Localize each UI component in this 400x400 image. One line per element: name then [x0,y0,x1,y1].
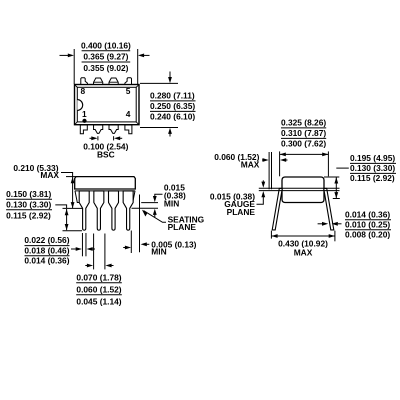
pin 1 index dot [82,119,86,123]
pin 8 tab (top) [81,78,88,85]
svg-text:MAX: MAX [294,248,313,258]
underline [350,162,396,164]
dim 0.195 leader [336,167,349,169]
seating plane label leader arrow [142,210,166,223]
top view body inner rectangle [77,87,136,122]
dim 0.070 left arrow [85,264,93,268]
underline [25,255,70,257]
dim 0.070 right arrow [105,264,113,268]
side view body [75,177,136,189]
svg-text:0.280 (7.11): 0.280 (7.11) [150,91,195,101]
svg-text:8: 8 [81,86,86,96]
underline [281,127,326,129]
dim 0.005 arrow [141,242,150,246]
svg-text:MAX: MAX [40,170,59,180]
dim 0.010 right arrow [332,222,342,226]
underline [345,229,391,231]
underline [150,100,196,102]
dim 0.022 left arrow [71,247,82,251]
gauge plane line lower [259,190,340,192]
side view pin 3 [109,191,119,230]
dim 0.100 right tick [113,136,115,140]
dim 0.100 left tick [97,136,99,140]
dim 0.010 left arrow [318,222,329,226]
seating plane right reference line upper [141,202,158,204]
dim 0.060 left-pointing arrow [280,158,288,162]
svg-text:0.195 (4.95): 0.195 (4.95) [350,153,395,163]
dim 0.430 right extension line [334,231,336,242]
underline [150,110,196,112]
svg-text:0.115 (2.92): 0.115 (2.92) [6,211,51,221]
svg-text:5: 5 [126,86,131,96]
svg-text:0.355 (9.02): 0.355 (9.02) [83,63,128,73]
dim 0.005 inner arrow [123,246,131,250]
underline [350,172,396,174]
top view body outer rectangle [75,85,140,125]
underline [76,294,122,296]
svg-text:0.150 (3.81): 0.150 (3.81) [6,189,51,199]
dim 0.280 upper arrow (down) [168,72,172,84]
dim 0.060 extension line b [271,152,273,189]
dim 0.070 left extension line [93,234,95,270]
seating plane right segment [132,207,159,209]
dim 0.280 lower extension line [140,127,178,129]
svg-text:4: 4 [126,109,131,119]
svg-text:BSC: BSC [97,149,115,159]
end view left lead [272,188,282,230]
svg-text:0.018 (0.46): 0.018 (0.46) [24,245,69,255]
dim 0.195 bottom tick [333,198,340,200]
svg-text:0.070 (1.78): 0.070 (1.78) [76,272,121,282]
side view pin 1 [79,191,89,230]
end view right lead [324,188,334,230]
svg-text:0.022 (0.56): 0.022 (0.56) [24,235,69,245]
pin 7 tab (top) [94,78,103,84]
pin 5 tab (top) [125,78,132,85]
dim 0.400 right extension line [137,49,139,84]
dim 0.100 left arrow [90,136,98,140]
svg-text:MIN: MIN [164,198,179,208]
pin 4 tab (bottom) [125,125,132,134]
underline [25,245,70,247]
svg-text:0.365 (9.27): 0.365 (9.27) [83,52,128,62]
svg-text:0.240 (6.10): 0.240 (6.10) [150,112,195,122]
dim 0.015 up arrow [153,209,157,218]
svg-text:0.010 (0.25): 0.010 (0.25) [345,219,390,229]
body frame corner bevels [75,85,139,125]
gauge plane line upper [259,187,340,189]
underline [82,61,131,63]
side view body lower edge line [75,190,135,192]
dim 0.150 vertical dimension line with arrows [65,209,69,230]
dim 0.280 lower arrow (up) [168,128,172,137]
side view body lower-right end slant [131,191,135,203]
dim 0.210 top tick [66,176,78,178]
svg-text:0.014 (0.36): 0.014 (0.36) [24,256,69,266]
underline [76,282,122,284]
svg-text:MIN: MIN [151,247,166,257]
dim 0.430 dimension line with arrows [271,234,335,238]
dim 0.070 right extension line [104,234,106,270]
dim 0.100 right arrow [114,136,122,140]
svg-text:PLANE: PLANE [227,207,256,217]
underline [6,209,52,211]
underline [6,198,52,200]
svg-text:0.130 (3.30): 0.130 (3.30) [350,163,395,173]
svg-text:0.310 (7.87): 0.310 (7.87) [281,128,326,138]
dim 0.060 extension line a [268,152,270,189]
dim 0.022 left extension line [81,233,83,256]
pin 6 tab (top) [109,78,118,84]
side view body lower-left end slant [75,191,79,203]
dim 0.400 left extension line [73,49,75,84]
dim 0.300 right extension line [327,151,329,176]
dim 0.280 upper extension line [140,82,178,84]
svg-text:PLANE: PLANE [168,222,197,232]
svg-text:0.250 (6.35): 0.250 (6.35) [150,101,195,111]
svg-text:0.045 (1.14): 0.045 (1.14) [76,296,121,306]
pin 2 tab (bottom) [94,125,103,133]
dim 0.015 gauge plane down arrow [261,180,265,188]
side view pin 2 [94,191,104,230]
end view body [282,177,324,203]
svg-text:0.008 (0.20): 0.008 (0.20) [345,229,390,239]
svg-text:1: 1 [82,109,87,119]
seating plane left segment [63,207,83,209]
svg-text:0.400 (10.16): 0.400 (10.16) [81,40,131,50]
underline [281,137,326,139]
dim 0.400 right arrow [138,54,150,58]
body right edge extension line [139,195,141,253]
dim 0.400 left arrow [60,54,75,58]
pin 1 tab (bottom) [80,125,87,134]
dim 0.300 dimension line with arrows [280,153,329,157]
dim 0.022 right extension line [85,233,87,256]
svg-text:0.325 (8.26): 0.325 (8.26) [281,118,326,128]
dim 0.150 leader [55,205,66,209]
svg-text:MAX: MAX [241,160,260,170]
dim 0.210 leader from MAX [61,173,73,177]
dim 0.060 right-pointing arrow [262,158,269,162]
svg-text:0.014 (0.36): 0.014 (0.36) [345,209,390,219]
dim 0.430 left extension line [270,231,272,239]
end view body top edge extension [324,176,339,178]
dim 0.022 right arrow [87,247,96,251]
svg-text:0.060 (1.52): 0.060 (1.52) [76,284,121,294]
pin 3 tab (bottom) [109,125,118,133]
pin 4 edge extension line [130,231,132,254]
underline [345,219,391,221]
side view pin 4 [123,191,133,230]
svg-text:0.130 (3.30): 0.130 (3.30) [6,199,51,209]
svg-text:0.300 (7.62): 0.300 (7.62) [281,139,326,149]
pin tip reference line (left) [63,230,83,232]
dim 0.300 left extension line [279,151,281,176]
underline [82,50,131,52]
dim 0.210 vertical dimension line with arrows [71,177,75,208]
dim 0.015 gauge plane up arrow with leader [257,191,266,204]
dim 0.195 vertical dimension line with arrows [334,177,338,198]
svg-text:0.115 (2.92): 0.115 (2.92) [350,173,395,183]
pin1 index notch (left edge semicircle) [77,100,82,111]
dim 0.015 down arrow with leader [153,194,163,202]
